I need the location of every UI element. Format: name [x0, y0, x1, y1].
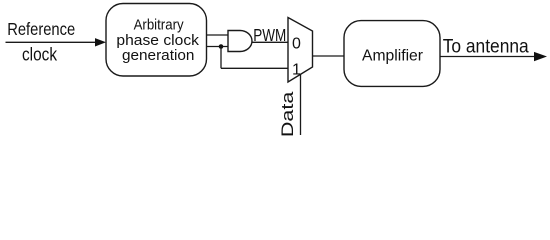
- mux U2: [288, 18, 313, 83]
- AND gate: [228, 31, 252, 52]
- wire box to AND gate bottom input: [207, 46, 229, 48]
- svg-text:PWM: PWM: [253, 25, 286, 45]
- svg-text:clock: clock: [22, 45, 58, 65]
- svg-text:Arbitrary: Arbitrary: [134, 18, 185, 34]
- wire AND output to mux input 0 (PWM net): [252, 41, 288, 43]
- svg-text:To antenna: To antenna: [443, 36, 529, 57]
- svg-text:Amplifier: Amplifier: [362, 47, 424, 64]
- wire to mux input 1: [221, 67, 288, 69]
- wire mux output to amplifier: [313, 55, 345, 57]
- svg-text:generation: generation: [122, 48, 194, 64]
- svg-text:0: 0: [292, 36, 301, 53]
- wire reference clock arrow: [6, 38, 107, 46]
- block U1 arbitrary phase clock generation: [106, 4, 207, 77]
- junction dot: [219, 44, 224, 49]
- svg-text:Reference: Reference: [7, 19, 75, 39]
- svg-text:phase clock: phase clock: [116, 33, 199, 49]
- net label Reference clock: [7, 19, 75, 64]
- wire data select input: [300, 75, 302, 136]
- amplifier block U3: [344, 21, 440, 87]
- wire junction down: [220, 47, 222, 69]
- svg-text:1: 1: [292, 62, 301, 79]
- wire box to AND gate top input: [207, 34, 229, 36]
- svg-text:Data: Data: [278, 91, 297, 137]
- wire to antenna arrow: [440, 52, 547, 61]
